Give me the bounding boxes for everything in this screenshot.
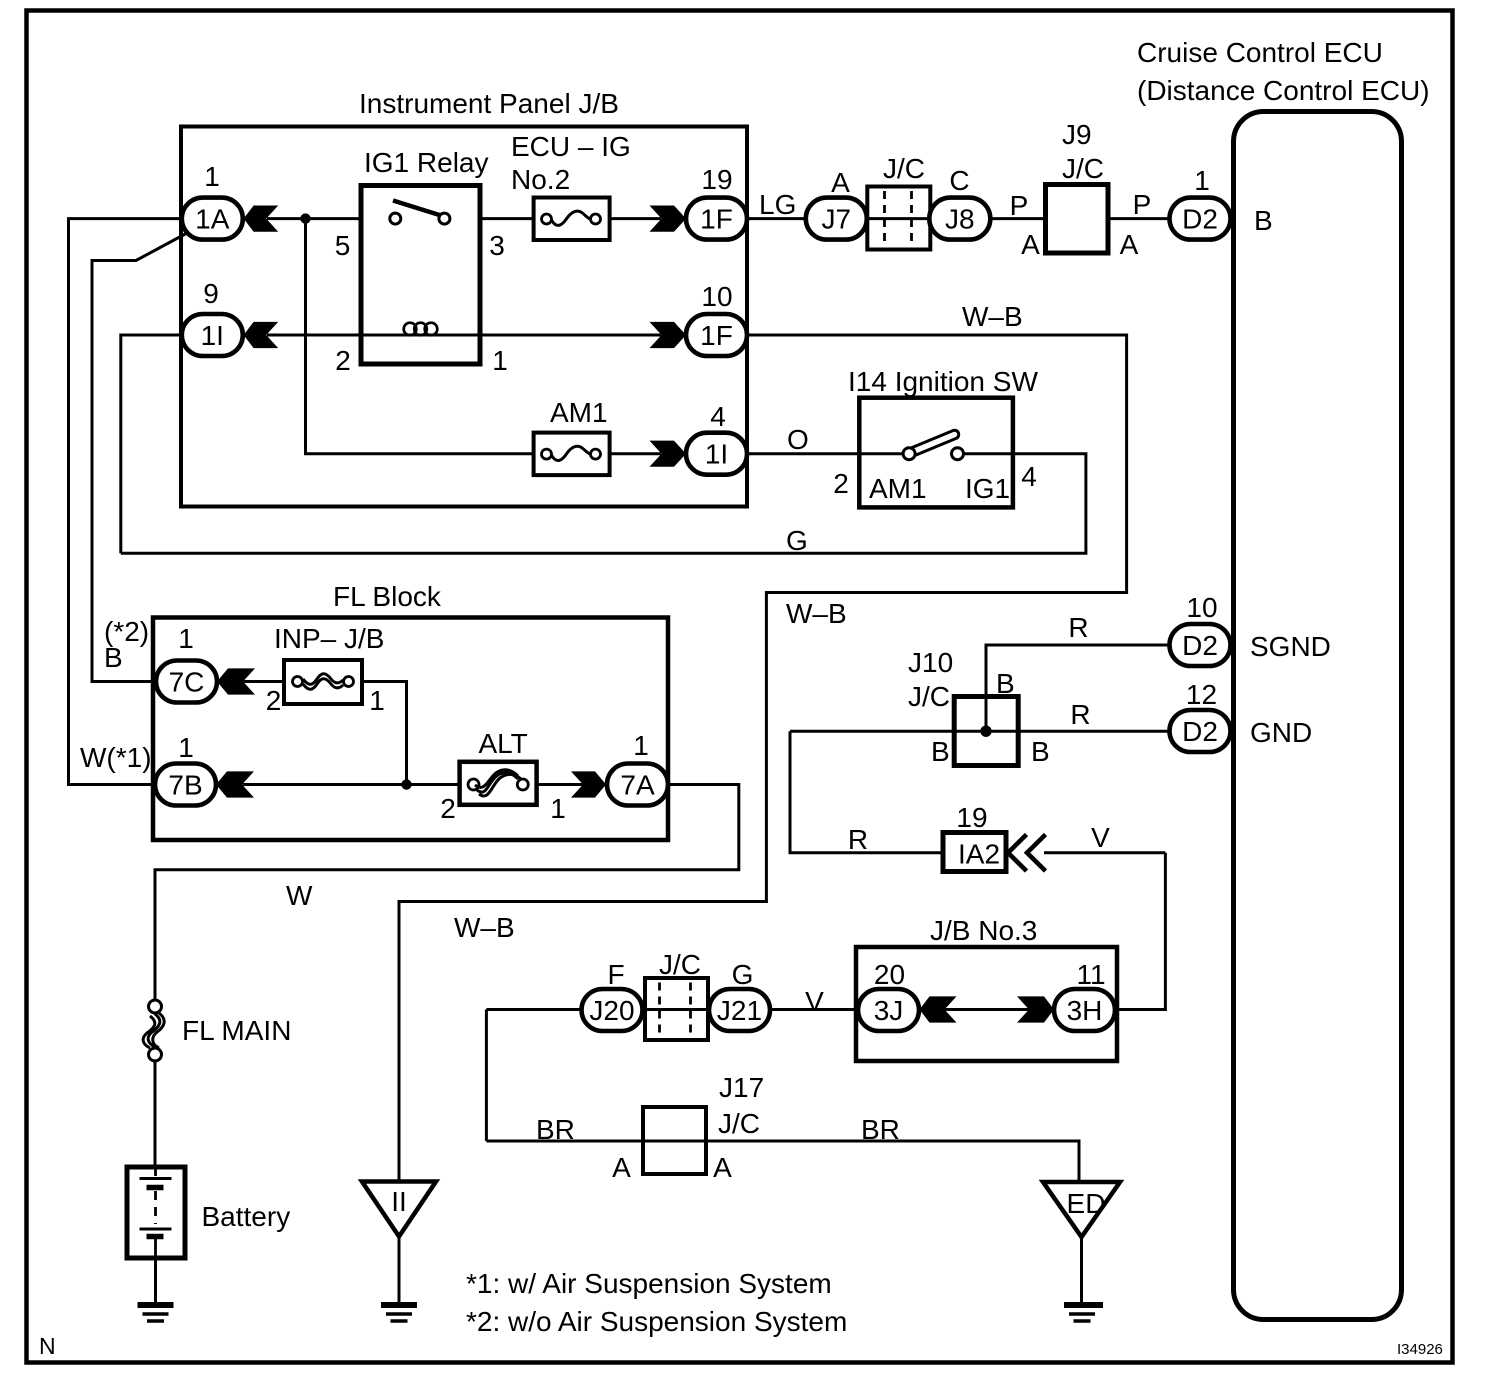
- pin A right of J9: [1120, 229, 1139, 260]
- wire J7 to J8 through J/C: [867, 217, 931, 220]
- svg-text:B: B: [104, 642, 123, 673]
- fusible link ALT: [460, 762, 537, 805]
- connector J7: [806, 198, 867, 240]
- svg-text:C: C: [949, 165, 969, 196]
- pin B above J10: [996, 668, 1015, 699]
- pin 1 INP fuse: [369, 685, 385, 716]
- connector D2 pin 1: [1170, 198, 1231, 240]
- net W: [286, 880, 313, 911]
- label I14 Ignition SW title: [848, 366, 1038, 397]
- svg-text:J21: J21: [717, 995, 762, 1026]
- pin 2 INP fuse: [266, 685, 282, 716]
- net W-B lower: [454, 912, 515, 943]
- ground below II: [381, 1305, 417, 1321]
- wire 1A diagonal branch to 7C: [92, 233, 188, 682]
- battery: [127, 1167, 185, 1258]
- Instrument Panel J/B block: [181, 127, 747, 507]
- svg-text:B: B: [1031, 736, 1050, 767]
- connector 3H pin 11: [1054, 989, 1115, 1031]
- fuse INP-J/B: [284, 660, 362, 704]
- svg-text:B: B: [1254, 205, 1273, 236]
- svg-text:Battery: Battery: [202, 1201, 291, 1232]
- svg-text:J/C: J/C: [883, 153, 925, 184]
- pin 11 above 3H: [1076, 959, 1105, 990]
- FL Block: [153, 618, 668, 841]
- svg-text:BR: BR: [861, 1114, 900, 1145]
- connector 3J pin 20: [858, 989, 919, 1031]
- connector J21: [709, 989, 770, 1031]
- note asterisk footnotes: [466, 1268, 847, 1337]
- svg-text:W–B: W–B: [454, 912, 515, 943]
- pin A right J17: [713, 1152, 732, 1183]
- svg-text:3: 3: [489, 230, 505, 261]
- svg-text:FL MAIN: FL MAIN: [182, 1015, 291, 1046]
- svg-text:J/C: J/C: [718, 1108, 760, 1139]
- net W-B mid: [786, 598, 847, 629]
- svg-text:19: 19: [956, 802, 987, 833]
- svg-text:5: 5: [335, 230, 351, 261]
- label J17 J/C: [718, 1072, 764, 1139]
- svg-text:1: 1: [369, 685, 385, 716]
- svg-text:1: 1: [1194, 165, 1210, 196]
- svg-text:J10: J10: [908, 647, 953, 678]
- junction dot node at J10 J/C: [980, 726, 991, 737]
- wire 3J arrow to 3H arrow: [945, 1008, 1030, 1011]
- connector 7A pin 1: [607, 764, 668, 806]
- svg-text:IG1 Relay: IG1 Relay: [364, 147, 489, 178]
- svg-text:F: F: [607, 959, 624, 990]
- chevrons at IA2 (V side): [1008, 835, 1046, 872]
- connector 1F pin 10: [686, 314, 747, 356]
- wire AM1 fuse to 1I pin4: [610, 452, 661, 455]
- label (*2) B net: [104, 616, 149, 673]
- svg-text:W–B: W–B: [786, 598, 847, 629]
- connector J8: [929, 198, 990, 240]
- svg-text:2: 2: [833, 468, 849, 499]
- svg-text:ALT: ALT: [479, 728, 528, 759]
- pin 5 relay: [335, 230, 351, 261]
- svg-text:A: A: [713, 1152, 732, 1183]
- net LG: [759, 189, 796, 220]
- svg-text:2: 2: [266, 685, 282, 716]
- connector J20: [582, 989, 643, 1031]
- pin 1 above 1A: [204, 161, 220, 192]
- svg-text:R: R: [1068, 612, 1088, 643]
- svg-text:B: B: [996, 668, 1015, 699]
- wire relay pin 1 to 1F pin10: [480, 334, 661, 337]
- net V at IA2: [1091, 822, 1110, 853]
- svg-text:N: N: [39, 1333, 56, 1359]
- wire 7A to battery W rail: [155, 785, 739, 1002]
- svg-text:10: 10: [1186, 592, 1217, 623]
- connector 1F pin 19: [686, 198, 747, 240]
- pin B lower left J10: [931, 736, 950, 767]
- svg-text:J7: J7: [822, 204, 852, 235]
- ground below battery: [138, 1305, 174, 1321]
- svg-text:A: A: [1021, 229, 1040, 260]
- svg-text:1I: 1I: [705, 439, 728, 470]
- pin 2 ignition switch: [833, 468, 849, 499]
- connector 1I pin 9: [182, 314, 243, 356]
- svg-text:1: 1: [492, 345, 508, 376]
- connector J/C between J20 and J21: [645, 978, 708, 1040]
- label Instrument Panel J/B title: [359, 88, 619, 119]
- svg-text:1F: 1F: [700, 204, 733, 235]
- svg-text:W–B: W–B: [962, 301, 1023, 332]
- svg-text:W(*1): W(*1): [80, 742, 152, 773]
- wire 1I arrow to relay coil pin 2: [267, 334, 361, 337]
- svg-text:G: G: [732, 959, 754, 990]
- svg-text:ED: ED: [1067, 1188, 1106, 1219]
- svg-text:V: V: [1091, 822, 1110, 853]
- fuse AM1: [534, 433, 610, 476]
- pin 10 above D2 SGND: [1186, 592, 1217, 623]
- svg-text:2: 2: [335, 345, 351, 376]
- svg-text:D2: D2: [1182, 716, 1218, 747]
- wire 7B arrow to ALT fuse: [243, 783, 460, 786]
- pin 19 above 1F: [701, 164, 732, 195]
- arrow right at 1F pin19: [650, 206, 687, 232]
- wire 1I pin4 to ignition switch AM1 contact (O): [747, 452, 904, 455]
- svg-text:J/C: J/C: [659, 949, 701, 980]
- svg-text:AM1: AM1: [869, 473, 927, 504]
- label I34926 figure number: [1397, 1341, 1443, 1358]
- svg-text:ECU – IG: ECU – IG: [511, 131, 631, 162]
- svg-text:II: II: [391, 1186, 407, 1217]
- svg-text:P: P: [1133, 189, 1152, 220]
- wire ECU-IG fuse to 1F pin19: [610, 217, 661, 220]
- pin 12 above D2 GND: [1186, 679, 1217, 710]
- wire 1A left to 7B (battery feed left rail): [69, 219, 183, 785]
- label J/C above J20-J21: [659, 949, 701, 980]
- junction block J/B No.3 box: [856, 947, 1117, 1061]
- connector 1I pin 4: [686, 433, 747, 475]
- pin A left of J9: [1021, 229, 1040, 260]
- label Battery name: [202, 1201, 291, 1232]
- svg-text:10: 10: [701, 281, 732, 312]
- wire V rail to IA2 chevrons: [1044, 851, 1165, 854]
- svg-text:*1: w/ Air Suspension System: *1: w/ Air Suspension System: [466, 1268, 832, 1299]
- connector J/C between J7 and J8: [867, 187, 930, 250]
- net BR left: [536, 1114, 575, 1145]
- svg-text:FL Block: FL Block: [333, 581, 442, 612]
- pin 2 ALT fuse: [440, 793, 456, 824]
- svg-text:7C: 7C: [169, 667, 205, 698]
- net BR right: [861, 1114, 900, 1145]
- svg-text:(Distance Control ECU): (Distance Control ECU): [1137, 75, 1430, 106]
- arrow right at 1F pin10: [650, 322, 687, 348]
- wire battery to chassis ground: [154, 1258, 157, 1304]
- ground triangle ED: [1043, 1182, 1120, 1237]
- wire relay pin 3 to ECU-IG fuse: [480, 217, 534, 220]
- label AM1 fuse name: [550, 397, 608, 428]
- label Cruise Control ECU title: [1137, 37, 1430, 106]
- label SGND: [1250, 631, 1331, 662]
- wire 1I pin9 left down to G rail: [121, 335, 182, 553]
- connector IA2 name: [958, 839, 1000, 870]
- label FL MAIN name: [182, 1015, 291, 1046]
- wire J21 to 3J (V): [770, 1008, 861, 1011]
- wire J10 junction up to D2 pin10 SGND (R): [986, 645, 1171, 731]
- label J/B No.3 title: [930, 915, 1037, 946]
- svg-text:J/C: J/C: [1062, 153, 1104, 184]
- wire 1F pin19 to J7 (LG): [747, 217, 808, 220]
- wire II triangle to ground: [398, 1235, 401, 1304]
- svg-text:INP– J/B: INP– J/B: [274, 623, 384, 654]
- net O: [787, 424, 809, 455]
- arrow left at 1I pin9: [244, 322, 279, 348]
- wire 1A arrow to IG1 relay pin 5: [267, 217, 361, 220]
- label AM1 contact: [869, 473, 927, 504]
- wire relay coil through box: [361, 334, 480, 337]
- connector D2 pin 10 SGND: [1170, 624, 1231, 666]
- label IG1 Relay title: [364, 147, 489, 178]
- svg-text:J20: J20: [589, 995, 634, 1026]
- junction dot node at 1A relay feed: [300, 213, 310, 223]
- wire INP-J/B fuse pin1 down to 7B rail: [362, 682, 407, 785]
- fusible link FL MAIN: [143, 1000, 164, 1061]
- pin F above J20: [607, 959, 624, 990]
- connector 7C pin 1: [156, 661, 217, 703]
- Cruise Control ECU block: [1234, 112, 1402, 1320]
- ground below ED: [1064, 1305, 1103, 1321]
- connector J9 J/C box: [1046, 185, 1109, 254]
- label ECU-IG No.2 fuse name: [511, 131, 631, 195]
- wire R to D2 pin12 GND through J10: [790, 730, 1171, 733]
- net G: [786, 525, 808, 556]
- svg-text:9: 9: [203, 278, 219, 309]
- svg-text:1: 1: [633, 730, 649, 761]
- junction dot node at 7B ALT feed: [401, 779, 411, 789]
- pin 20 above 3J: [874, 959, 905, 990]
- svg-text:W: W: [286, 880, 313, 911]
- wire J20 to J21 through J/C: [642, 1008, 711, 1011]
- connector D2 pin 12 GND: [1170, 710, 1231, 752]
- wire ED triangle to ground: [1080, 1235, 1083, 1305]
- label J/C above J7-J8: [883, 153, 925, 184]
- label W(*1) net: [80, 742, 152, 773]
- pin 4 above 1I: [710, 401, 726, 432]
- net R to GND: [1070, 699, 1090, 730]
- net P right of J9: [1133, 189, 1152, 220]
- pin 1 above 7C: [178, 623, 194, 654]
- svg-text:J/B No.3: J/B No.3: [930, 915, 1037, 946]
- pin A above J7: [831, 167, 850, 198]
- wire J20 branch down to BR rail: [485, 1010, 488, 1142]
- svg-text:R: R: [848, 824, 868, 855]
- svg-text:B: B: [931, 736, 950, 767]
- pin B lower right J10: [1031, 736, 1050, 767]
- wire IA2 to GND rail (R): [790, 731, 943, 853]
- svg-text:D2: D2: [1182, 630, 1218, 661]
- svg-text:11: 11: [1076, 959, 1105, 990]
- pin 1 relay: [492, 345, 508, 376]
- label GND: [1250, 717, 1312, 748]
- svg-text:7A: 7A: [620, 770, 655, 801]
- svg-text:J/C: J/C: [908, 681, 950, 712]
- wire 7C arrow to INP-J/B fuse: [244, 680, 285, 683]
- relay IG1 coil: [404, 323, 438, 336]
- svg-text:1A: 1A: [195, 204, 230, 235]
- svg-text:J8: J8: [945, 204, 975, 235]
- svg-text:1I: 1I: [201, 320, 224, 351]
- pin G above J21: [732, 959, 754, 990]
- svg-text:19: 19: [701, 164, 732, 195]
- ground triangle II: [362, 1182, 436, 1237]
- wire W-B rail to J20: [486, 1008, 583, 1011]
- wire J9 J/C to D2 pin1 (P): [1108, 217, 1171, 220]
- connector 1A pin 1: [182, 198, 243, 240]
- relay IG1 box: [361, 186, 480, 365]
- svg-text:3J: 3J: [874, 995, 904, 1026]
- svg-text:O: O: [787, 424, 809, 455]
- switch I14 contacts and lever: [903, 435, 963, 460]
- svg-text:Cruise Control ECU: Cruise Control ECU: [1137, 37, 1383, 68]
- pin 1 above 7A: [633, 730, 649, 761]
- pin B label at D2: [1254, 205, 1273, 236]
- relay IG1 contact circles and lever: [390, 201, 450, 225]
- svg-text:1: 1: [178, 623, 194, 654]
- pin 10 above 1F: [701, 281, 732, 312]
- svg-text:I14 Ignition SW: I14 Ignition SW: [848, 366, 1038, 397]
- svg-text:12: 12: [1186, 679, 1217, 710]
- wire 1F pin10 W-B to II ground: [399, 335, 1127, 1183]
- svg-text:BR: BR: [536, 1114, 575, 1145]
- arrow right at 1I pin4: [650, 441, 687, 467]
- label J10 J/C: [908, 647, 953, 712]
- svg-text:Instrument Panel J/B: Instrument Panel J/B: [359, 88, 619, 119]
- pin 1 above D2: [1194, 165, 1210, 196]
- wire J8 to J9 J/C (P): [989, 217, 1045, 220]
- svg-text:V: V: [805, 986, 824, 1017]
- arrow left at 1A: [244, 206, 279, 232]
- pin 1 above 7B: [178, 732, 194, 763]
- arrow right at 7A: [571, 771, 606, 797]
- svg-text:1F: 1F: [700, 320, 733, 351]
- net R to SGND: [1068, 612, 1088, 643]
- svg-text:I34926: I34926: [1397, 1341, 1443, 1358]
- label N page marker: [39, 1333, 56, 1359]
- arrow left at 7C: [217, 668, 255, 694]
- svg-text:J9: J9: [1062, 119, 1092, 150]
- svg-text:LG: LG: [759, 189, 796, 220]
- svg-text:1: 1: [178, 732, 194, 763]
- pin 2 relay: [335, 345, 351, 376]
- svg-text:IG1: IG1: [965, 473, 1010, 504]
- switch I14 Ignition SW box: [859, 398, 1013, 508]
- svg-text:P: P: [1010, 190, 1029, 221]
- pin 9 above 1I: [203, 278, 219, 309]
- svg-text:G: G: [786, 525, 808, 556]
- pin C above J8: [949, 165, 969, 196]
- svg-text:3H: 3H: [1067, 995, 1103, 1026]
- svg-text:SGND: SGND: [1250, 631, 1331, 662]
- net R at IA2: [848, 824, 868, 855]
- svg-text:J17: J17: [719, 1072, 764, 1103]
- svg-text:AM1: AM1: [550, 397, 608, 428]
- wire FL MAIN to battery: [154, 1060, 157, 1167]
- label IG1 contact: [965, 473, 1010, 504]
- wire ALT fuse to 7A arrow: [537, 783, 583, 786]
- net V at J21: [805, 986, 824, 1017]
- svg-text:*2: w/o Air Suspension System: *2: w/o Air Suspension System: [466, 1306, 847, 1337]
- net P left of J9: [1010, 190, 1029, 221]
- pin 19 above IA2: [956, 802, 987, 833]
- svg-text:A: A: [831, 167, 850, 198]
- label J9 J/C: [1062, 119, 1104, 184]
- arrow right at 3H: [1017, 996, 1054, 1022]
- svg-text:D2: D2: [1182, 204, 1218, 235]
- fuse ECU-IG No.2: [534, 198, 610, 241]
- wire 3H to IA2 V rail: [1115, 853, 1166, 1010]
- connector J10 J/C box: [954, 697, 1018, 766]
- svg-text:A: A: [612, 1152, 631, 1183]
- net W-B top: [962, 301, 1023, 332]
- pin 3 relay: [489, 230, 505, 261]
- pin 4 ignition switch: [1021, 461, 1037, 492]
- svg-text:No.2: No.2: [511, 164, 570, 195]
- svg-text:A: A: [1120, 229, 1139, 260]
- svg-text:20: 20: [874, 959, 905, 990]
- label FL Block title: [333, 581, 442, 612]
- connector IA2 box: [943, 833, 1006, 872]
- svg-text:1: 1: [550, 793, 566, 824]
- connector 7B pin 1: [155, 764, 216, 806]
- svg-text:2: 2: [440, 793, 456, 824]
- arrow left at 7B: [216, 771, 254, 797]
- svg-text:R: R: [1070, 699, 1090, 730]
- arrow left at 3J: [920, 996, 957, 1022]
- wire G rail to ignition switch IG1 contact: [121, 454, 1086, 554]
- pin A left J17: [612, 1152, 631, 1183]
- label INP-J/B fuse name: [274, 623, 384, 654]
- pin 1 ALT fuse: [550, 793, 566, 824]
- svg-text:GND: GND: [1250, 717, 1312, 748]
- svg-text:IA2: IA2: [958, 839, 1000, 870]
- connector J17 J/C box: [643, 1107, 706, 1174]
- wire junction dot node down to AM1 fuse: [306, 219, 534, 454]
- svg-text:7B: 7B: [168, 770, 202, 801]
- svg-text:1: 1: [204, 161, 220, 192]
- svg-text:4: 4: [710, 401, 726, 432]
- svg-text:4: 4: [1021, 461, 1037, 492]
- wire BR rail through J17 to ED ground: [486, 1141, 1079, 1184]
- label ALT fuse name: [479, 728, 528, 759]
